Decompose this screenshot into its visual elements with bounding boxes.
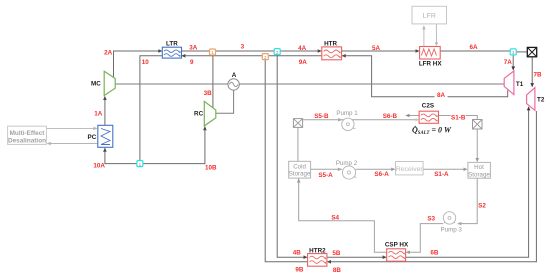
svg-text:4A: 4A <box>298 45 307 52</box>
svg-text:LFR HX: LFR HX <box>419 61 443 68</box>
svg-text:S6-A: S6-A <box>374 171 389 178</box>
svg-text:S5-A: S5-A <box>318 172 333 179</box>
node 1 orange (top) <box>210 49 216 55</box>
compressor RC <box>204 101 216 125</box>
pump Pump 2 <box>336 160 358 179</box>
arrow into MC bottom <box>103 96 107 100</box>
arrow into Pump3 right <box>457 222 461 226</box>
arrow into RC bottom <box>203 126 207 130</box>
generator A <box>228 79 239 90</box>
box LFR <box>412 6 447 24</box>
wire: bottom bus stream 9A HTR to orange node2 <box>268 55 322 57</box>
svg-text:S3: S3 <box>427 215 435 222</box>
svg-text:5B: 5B <box>332 250 341 257</box>
wire: top bus LTR to orange node 1 (3A) <box>182 50 210 52</box>
wire: left valve down to Cold Storage top <box>297 127 299 161</box>
heat exchanger C2S <box>419 111 438 123</box>
svg-text:8A: 8A <box>437 92 446 99</box>
heat exchanger CSP HX <box>387 249 406 261</box>
node 3 cyan (right) <box>510 49 516 55</box>
svg-text:MC: MC <box>91 80 101 87</box>
svg-text:5A: 5A <box>372 45 381 52</box>
wire: MED to PC upper line <box>46 127 95 129</box>
valve right (hot) <box>473 120 483 130</box>
pump Pump 1 <box>336 110 358 130</box>
svg-text:Pump 1: Pump 1 <box>336 110 358 117</box>
svg-text:C2S: C2S <box>422 102 434 109</box>
compressor MC <box>104 71 115 95</box>
wire: bottom bus stream 10 LTR to corner and down to node 1 <box>140 56 162 161</box>
stream label 8A <box>435 92 448 99</box>
wire: stream 8B T2 to HTR2 right <box>330 111 537 262</box>
svg-text:2A: 2A <box>104 49 113 56</box>
box Hot Storage <box>468 162 491 178</box>
svg-text:Multi-Effect: Multi-Effect <box>10 130 46 137</box>
svg-text:1A: 1A <box>94 111 103 118</box>
node 2 cyan (top bus) <box>274 49 280 55</box>
svg-text:Storage: Storage <box>289 171 311 178</box>
wire: stream 9B HTR2 left up to orange node2 <box>265 59 307 261</box>
heat exchanger LTR <box>162 47 181 58</box>
wire: node3 to black valve <box>517 51 528 53</box>
wire: salt S1-A Receiver to Hot Storage <box>423 168 465 170</box>
wire: salt S6-B upper stub with jog <box>408 115 420 117</box>
svg-text:RC: RC <box>194 110 204 117</box>
wire: stream 1A PC to MC <box>104 97 106 125</box>
wire: stream 5B HTR2 to CSP HX <box>327 256 384 258</box>
svg-text:6B: 6B <box>430 249 439 256</box>
box Cold Storage <box>289 161 311 178</box>
svg-text:S4: S4 <box>331 215 339 222</box>
arrow into Receiver left <box>391 168 395 172</box>
svg-text:Pump 3: Pump 3 <box>441 226 463 233</box>
wire: salt S5-A Cold Storage to Pump2 <box>311 168 342 170</box>
svg-text:9: 9 <box>190 59 194 66</box>
arrow into Hot Storage left <box>464 168 468 172</box>
svg-text:Pump 2: Pump 2 <box>336 160 358 167</box>
svg-text:CSP HX: CSP HX <box>385 242 409 249</box>
valve left (cold) <box>293 119 302 128</box>
wire: LFR heat loop verticals <box>424 24 437 47</box>
svg-text:S1-A: S1-A <box>434 171 449 178</box>
arrow into CSP HX left <box>383 255 387 259</box>
arrow into LFR bottom <box>422 26 425 30</box>
arrow into PC left <box>93 127 97 131</box>
wire: LFR HX to cyan node 3 (6A) <box>440 50 510 52</box>
wire: salt S6-A Pump2 to Receiver <box>356 168 395 170</box>
svg-text:4B: 4B <box>293 250 302 257</box>
wire: HTR to LFR HX (5A) <box>342 50 418 52</box>
wire: salt S4 CSP HX to Cold Storage <box>299 179 387 253</box>
arrow into LFR HX top <box>435 42 438 46</box>
arrow into PC bottom <box>103 148 107 152</box>
turbine T1 <box>504 71 514 95</box>
pump Pump 3 <box>441 212 463 234</box>
arrow into T2 top <box>530 83 534 87</box>
heat exchanger HTR2 <box>308 254 327 267</box>
arrow into Pump2 left <box>338 168 342 172</box>
arrow S6-B pointing left <box>405 114 409 118</box>
svg-text:10A: 10A <box>93 162 105 169</box>
node 2 orange (bottom bus) <box>262 54 268 60</box>
arrow into Cold Storage bottom <box>297 178 301 182</box>
arrow into LTR right <box>181 54 185 58</box>
arrow into HTR2 right <box>327 260 331 264</box>
svg-text:S5-B: S5-B <box>314 113 329 120</box>
wire: salt S3 Pump3 to CSP HX <box>407 224 443 253</box>
arrow into MED box right <box>47 142 51 146</box>
svg-text:A: A <box>232 72 237 79</box>
wire: stream 6B CSP HX to T2 bottom <box>406 108 529 258</box>
svg-text:Desalination: Desalination <box>8 138 46 145</box>
svg-text:3A: 3A <box>189 44 198 51</box>
wire: bottom bus stream 9 node2(orange) to LTR <box>184 55 262 57</box>
turbine T2 <box>527 88 535 111</box>
arrow into T2 bottom (6B) <box>527 106 531 110</box>
svg-text:6A: 6A <box>469 44 478 51</box>
arrow into HTR2 left <box>304 255 308 259</box>
wire: top bus node2 to HTR (4A) <box>280 50 319 52</box>
wire: stream 3B RC to orange node1 <box>212 55 214 107</box>
arrow into Hot Storage top <box>475 158 479 162</box>
valve black <box>527 47 536 56</box>
svg-text:S1-B: S1-B <box>451 115 466 122</box>
svg-text:Receiver: Receiver <box>396 166 424 173</box>
wire: stream 7B valve down to T2 <box>531 57 533 87</box>
svg-text:T2: T2 <box>537 96 545 103</box>
svg-text:10: 10 <box>142 59 150 66</box>
arrow into LFR HX left <box>416 49 420 53</box>
wire: salt S5-B S6-B line valve to C2S <box>303 119 417 121</box>
wire: stream 10A node1 to PC bottom <box>105 149 137 164</box>
arrow into HTR left <box>318 49 322 53</box>
svg-text:S6-B: S6-B <box>383 113 398 120</box>
box Multi-Effect Desalination <box>8 126 47 144</box>
svg-text:8B: 8B <box>333 267 342 274</box>
svg-text:LTR: LTR <box>166 41 178 48</box>
wire: shaft MC to T1 <box>115 83 504 85</box>
svg-text:7A: 7A <box>504 59 513 66</box>
wire: salt S1-B C2S to right valve to Hot Storage <box>439 116 478 120</box>
svg-text:S2: S2 <box>478 202 486 209</box>
arrow into LTR left <box>158 49 162 53</box>
svg-text:7B: 7B <box>533 72 542 79</box>
svg-text:9A: 9A <box>299 59 308 66</box>
svg-text:Cold: Cold <box>293 163 306 170</box>
arrow into HTR right <box>342 54 346 58</box>
svg-text:9B: 9B <box>295 266 304 273</box>
svg-text:PC: PC <box>88 134 97 141</box>
svg-text:Hot: Hot <box>474 164 484 171</box>
stream label S1-B <box>451 114 466 121</box>
heat exchanger HTR <box>322 47 342 60</box>
wire: salt S2 Hot Storage to Pump3 <box>458 178 477 223</box>
precooler PC <box>98 125 113 147</box>
svg-text:3B: 3B <box>204 90 213 97</box>
svg-text:HTR2: HTR2 <box>309 247 326 254</box>
arrow into T1 top <box>511 66 515 70</box>
box Receiver <box>396 162 424 175</box>
svg-text:10B: 10B <box>205 165 217 172</box>
wire: stream 4B node2 down and to HTR2 <box>277 54 305 257</box>
node 1 cyan (bottom left) <box>137 161 143 167</box>
wire: stream 10B node1 to RC bottom <box>143 127 205 163</box>
heat exchanger LFR HX <box>420 47 441 60</box>
wire: right valve down to Hot Storage top <box>476 129 478 159</box>
wire: shaft RC to generator A <box>216 90 234 113</box>
wire: top bus 2A segment MC to LTR <box>114 51 160 77</box>
wire: top bus node1 to node2 (3) <box>216 50 275 52</box>
arrow light into C2S lower left <box>416 118 419 121</box>
wire: PC to MED lower line <box>49 143 98 145</box>
svg-text:T1: T1 <box>516 81 524 88</box>
svg-text:HTR: HTR <box>324 40 337 47</box>
svg-text:Storage: Storage <box>468 171 490 178</box>
svg-text:LFR: LFR <box>423 13 436 20</box>
svg-text:3: 3 <box>241 44 245 51</box>
arrow into Pump1 left <box>338 118 342 122</box>
arrow into CSP HX right (S3) <box>406 250 410 254</box>
wire: stream 7A node3 down to T1 <box>512 55 514 70</box>
wire: stream 8A from T1 to HTR right <box>344 56 508 97</box>
